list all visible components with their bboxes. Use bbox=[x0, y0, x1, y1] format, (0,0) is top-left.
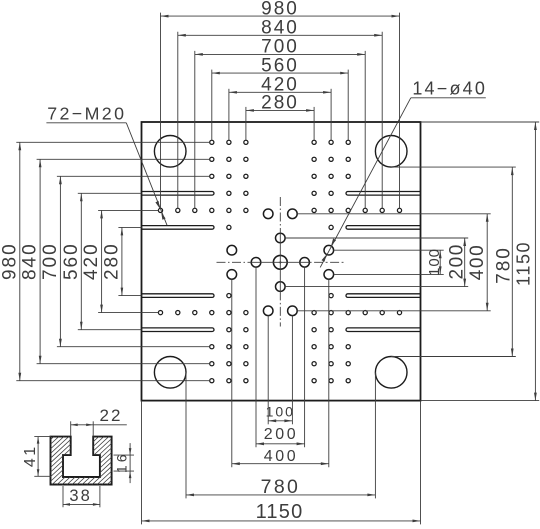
vertical centreline solid through holes bbox=[279, 233, 281, 291]
M20 hole (-280,-420) bbox=[210, 362, 214, 366]
M20 hole (-140,+420) bbox=[244, 157, 248, 161]
dimension 280 top bbox=[246, 93, 314, 141]
M20 hole (-140,-490) bbox=[244, 379, 248, 383]
M20 hole (-210,-490) bbox=[227, 379, 231, 383]
svg-text:1150: 1150 bbox=[514, 241, 534, 286]
dimension 400 bottom bbox=[232, 279, 329, 467]
T-slot right row -280 bbox=[346, 328, 421, 332]
M20 hole (-280,-210) bbox=[210, 311, 214, 315]
label 14-ø40 with leader bbox=[320, 79, 487, 268]
dimension 1150 bottom bbox=[142, 401, 421, 525]
dimension 100 right bbox=[334, 248, 444, 276]
dimension 420 top bbox=[229, 75, 331, 141]
M20 hole (-210,-420) bbox=[227, 362, 231, 366]
dimension 22 detail bbox=[71, 406, 127, 436]
svg-text:840: 840 bbox=[261, 18, 299, 39]
centre mark bbox=[279, 261, 282, 264]
ø40 hole (-200,+50) bbox=[227, 245, 237, 255]
svg-text:1150: 1150 bbox=[256, 501, 304, 523]
M20 hole (+280,-210) bbox=[346, 311, 350, 315]
svg-text:560: 560 bbox=[61, 242, 82, 280]
M20 hole (-140,-420) bbox=[244, 362, 248, 366]
M20 hole (-280,+210) bbox=[210, 208, 214, 212]
svg-text:38: 38 bbox=[69, 487, 91, 505]
M20 hole (+210,+140) bbox=[329, 225, 333, 229]
dimension 38 detail bbox=[63, 486, 100, 507]
dimension 980 top bbox=[161, 0, 400, 209]
tie-bar hole top-left bbox=[154, 136, 186, 168]
M20 hole (-280,+350) bbox=[210, 174, 214, 178]
dimension 700 top bbox=[195, 37, 365, 209]
M20 hole (+140,+350) bbox=[312, 174, 316, 178]
M20 hole (+280,-420) bbox=[346, 362, 350, 366]
M20 hole (+140,-490) bbox=[312, 379, 316, 383]
M20 hole (+280,-490) bbox=[346, 379, 350, 383]
M20 hole (-210,-350) bbox=[227, 345, 231, 349]
tie-bar hole bottom-right bbox=[375, 357, 407, 389]
M20 hole (-210,+420) bbox=[227, 157, 231, 161]
svg-text:280: 280 bbox=[261, 93, 299, 114]
dimension 560 top bbox=[212, 55, 348, 140]
M20 hole (+280,+420) bbox=[346, 157, 350, 161]
horizontal centreline left dash-dot bbox=[217, 261, 252, 263]
M20 hole (+140,-420) bbox=[312, 362, 316, 366]
dimension 420 left bbox=[81, 210, 159, 312]
M20 hole (+140,-350) bbox=[312, 345, 316, 349]
svg-text:560: 560 bbox=[261, 55, 299, 76]
T-slot left row +140 bbox=[142, 226, 214, 230]
M20 hole (-140,+210) bbox=[244, 208, 248, 212]
dimension 780 bottom bbox=[186, 372, 375, 498]
svg-text:200: 200 bbox=[264, 426, 299, 443]
M20 hole (-140,-350) bbox=[244, 345, 248, 349]
M20 hole (+280,+350) bbox=[346, 174, 350, 178]
dimension 280 left bbox=[101, 227, 141, 295]
M20 hole (-140,-280) bbox=[244, 328, 248, 332]
M20 hole (+210,-280) bbox=[329, 328, 333, 332]
ø40 hole (-100,+0) bbox=[251, 258, 261, 268]
dimension 100 bottom bbox=[266, 316, 295, 425]
svg-text:72−M20: 72−M20 bbox=[47, 104, 126, 124]
svg-text:980: 980 bbox=[261, 0, 299, 19]
M20 hole (+210,-490) bbox=[329, 379, 333, 383]
svg-text:840: 840 bbox=[20, 242, 41, 280]
M20 hole (+140,-210) bbox=[312, 311, 316, 315]
M20 hole (+280,+210) bbox=[346, 208, 350, 212]
T-slot left row -140 bbox=[142, 294, 214, 298]
M20 hole (-350,+210) bbox=[193, 208, 197, 212]
plate bottom edge extension (right 1150 ext line) bbox=[421, 400, 540, 402]
M20 hole (+140,-280) bbox=[312, 328, 316, 332]
svg-text:16: 16 bbox=[114, 452, 130, 474]
M20 hole (-210,+490) bbox=[227, 140, 231, 144]
ø40 hole (-50,+200) bbox=[263, 209, 273, 219]
M20 hole (-210,+350) bbox=[227, 174, 231, 178]
svg-text:700: 700 bbox=[40, 242, 61, 280]
centre hole bbox=[273, 255, 287, 269]
svg-text:41: 41 bbox=[22, 444, 39, 467]
svg-text:280: 280 bbox=[101, 242, 122, 280]
machine platen plate outline bbox=[142, 122, 421, 401]
dimension 41 detail bbox=[22, 437, 51, 477]
M20 hole (+210,+420) bbox=[329, 157, 333, 161]
dimension 840 top bbox=[178, 18, 382, 209]
svg-text:14−ø40: 14−ø40 bbox=[412, 79, 487, 99]
dimension 980 left bbox=[0, 142, 210, 380]
M20 hole (+210,-210) bbox=[329, 311, 333, 315]
svg-text:400: 400 bbox=[467, 244, 488, 281]
M20 hole (+280,+490) bbox=[346, 140, 350, 144]
T-slot right row -140 bbox=[346, 294, 421, 298]
dimension 780 right bbox=[391, 167, 516, 356]
M20 hole (-280,+490) bbox=[210, 140, 214, 144]
M20 hole (-350,-210) bbox=[193, 311, 197, 315]
ø40 hole (+50,+200) bbox=[288, 209, 298, 219]
M20 hole (-140,-210) bbox=[244, 311, 248, 315]
svg-text:400: 400 bbox=[264, 448, 299, 465]
M20 hole (+210,-420) bbox=[329, 362, 333, 366]
M20 hole (+210,+210) bbox=[329, 208, 333, 212]
dimension 16 detail bbox=[114, 443, 135, 483]
T-slot right row +280 bbox=[346, 192, 421, 196]
M20 hole (+280,-350) bbox=[346, 345, 350, 349]
M20 hole (-420,+210) bbox=[176, 208, 180, 212]
M20 hole (-140,+490) bbox=[244, 140, 248, 144]
tie-bar hole bottom-left bbox=[154, 357, 186, 389]
M20 hole (-140,+350) bbox=[244, 174, 248, 178]
horizontal centreline solid through holes bbox=[251, 261, 309, 263]
svg-text:780: 780 bbox=[494, 246, 515, 284]
M20 hole (+210,+350) bbox=[329, 174, 333, 178]
dimension 200 bottom bbox=[256, 267, 305, 447]
horizontal centreline right dash-dot bbox=[310, 261, 344, 263]
M20 hole (-280,-490) bbox=[210, 379, 214, 383]
vertical centreline lower dash-dot bbox=[279, 291, 281, 326]
dimension 560 left bbox=[61, 193, 142, 329]
svg-text:780: 780 bbox=[261, 476, 300, 498]
M20 hole (+210,+280) bbox=[329, 191, 333, 195]
M20 hole (-210,+210) bbox=[227, 208, 231, 212]
ø40 hole (-50,-200) bbox=[263, 306, 273, 316]
M20 hole (-280,+420) bbox=[210, 157, 214, 161]
M20 hole (-210,-140) bbox=[227, 294, 231, 298]
M20 hole (-210,-210) bbox=[227, 311, 231, 315]
M20 hole (+350,+210) bbox=[363, 208, 367, 212]
dimension 700 left bbox=[40, 176, 210, 346]
M20 hole (-490,-210) bbox=[158, 311, 162, 315]
T-slot left row -280 bbox=[142, 328, 214, 332]
M20 hole (+490,+210) bbox=[397, 208, 401, 212]
M20 hole (+140,+490) bbox=[312, 140, 316, 144]
M20 hole (+490,-210) bbox=[397, 311, 401, 315]
M20 hole (-140,+280) bbox=[244, 191, 248, 195]
label 72-M20 with leader bbox=[46, 104, 167, 226]
M20 hole (+140,+280) bbox=[312, 191, 316, 195]
M20 hole (-490,+210) bbox=[158, 208, 162, 212]
M20 hole (-210,+140) bbox=[227, 225, 231, 229]
M20 hole (+210,-350) bbox=[329, 345, 333, 349]
M20 hole (+210,-140) bbox=[329, 294, 333, 298]
svg-text:100: 100 bbox=[266, 403, 295, 419]
M20 hole (+350,-210) bbox=[363, 311, 367, 315]
M20 hole (-210,+280) bbox=[227, 191, 231, 195]
dimension 1150 right bbox=[514, 122, 537, 401]
T-slot right row +140 bbox=[346, 226, 420, 230]
M20 hole (-210,-280) bbox=[227, 328, 231, 332]
svg-text:22: 22 bbox=[100, 406, 123, 425]
M20 hole (-280,-350) bbox=[210, 345, 214, 349]
ø40 hole (+0,+100) bbox=[276, 233, 286, 243]
dimension 400 right bbox=[297, 214, 491, 311]
ø40 hole (+0,-100) bbox=[276, 282, 286, 292]
M20 hole (+420,-210) bbox=[380, 311, 384, 315]
M20 hole (+420,+210) bbox=[380, 208, 384, 212]
M20 hole (+210,+490) bbox=[329, 140, 333, 144]
M20 hole (-420,-210) bbox=[176, 311, 180, 315]
ø40 hole (-200,-50) bbox=[227, 270, 237, 280]
T-slot left row +280 bbox=[142, 192, 214, 196]
svg-text:200: 200 bbox=[446, 243, 467, 280]
ø40 hole (+50,-200) bbox=[288, 306, 298, 316]
svg-text:100: 100 bbox=[426, 248, 443, 276]
tie-bar hole top-right bbox=[375, 136, 407, 168]
vertical centreline upper dash-dot bbox=[279, 197, 281, 233]
plate top edge extension (right 1150 ext line) bbox=[421, 121, 540, 123]
ø40 hole (+200,+50) bbox=[324, 245, 334, 255]
svg-text:980: 980 bbox=[0, 242, 20, 280]
dimension 200 right bbox=[285, 238, 468, 287]
section hatching bbox=[0, 435, 171, 486]
ø40 hole (+100,+0) bbox=[300, 258, 310, 268]
svg-text:420: 420 bbox=[81, 242, 102, 280]
M20 hole (+140,+210) bbox=[312, 208, 316, 212]
T-slot section profile bbox=[51, 437, 112, 485]
M20 hole (+140,+420) bbox=[312, 157, 316, 161]
ø40 hole (+200,-50) bbox=[324, 270, 334, 280]
dimension 840 left bbox=[20, 159, 210, 363]
